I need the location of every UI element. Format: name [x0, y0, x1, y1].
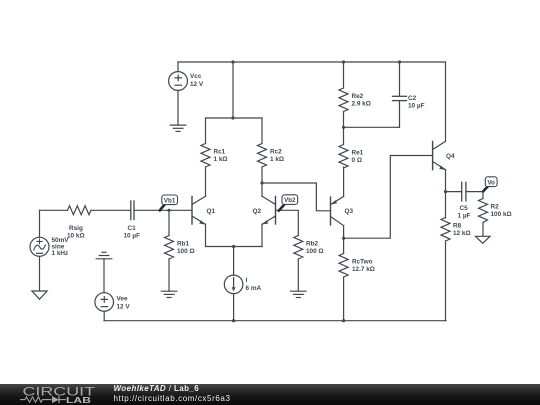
node (Rc2 bottom junction)	[260, 181, 263, 184]
label Rc1	[214, 149, 228, 164]
svg-text:Vee: Vee	[117, 296, 128, 303]
capacitor C2	[344, 62, 407, 127]
node (top rail junction to Rc bus)	[231, 60, 234, 63]
svg-text:R2: R2	[491, 204, 500, 211]
svg-text:Vcc: Vcc	[190, 73, 202, 80]
svg-text:Rc1: Rc1	[214, 149, 226, 156]
node (Rc bus junction)	[231, 116, 234, 119]
svg-text:RcTwo: RcTwo	[352, 259, 373, 266]
label R8	[453, 223, 471, 238]
svg-text:100 Ω: 100 Ω	[177, 248, 195, 255]
voltage source Vcc	[169, 62, 188, 125]
ground (under Rb2)	[291, 291, 307, 297]
svg-text:1 µF: 1 µF	[458, 213, 471, 220]
svg-text:Q2: Q2	[253, 208, 262, 215]
svg-text:Rb1: Rb1	[177, 241, 190, 248]
wire Q2 base to Rb2	[276, 210, 299, 235]
svg-text:1 kΩ: 1 kΩ	[214, 156, 228, 163]
svg-text:Q3: Q3	[345, 208, 354, 215]
resistor Rb1	[165, 210, 174, 291]
transistor Q2	[262, 183, 276, 247]
svg-text:Q1: Q1	[207, 208, 216, 215]
label I 6 mA	[246, 277, 262, 292]
wire source to Rsig	[40, 209, 68, 211]
source V1 50mV sine	[30, 210, 49, 290]
voltage source Vee	[95, 293, 114, 321]
ground (earth under source)	[32, 291, 47, 299]
node label Vb2	[279, 195, 298, 211]
label Vcc value	[190, 73, 204, 88]
node (emitter rail junction)	[232, 245, 235, 248]
svg-text:WoehlkeTAD / Lab_6: WoehlkeTAD / Lab_6	[114, 384, 200, 393]
svg-text:100 Ω: 100 Ω	[306, 248, 324, 255]
transistor Q4	[433, 62, 446, 218]
svg-text:LAB: LAB	[66, 395, 91, 405]
wire Rc2 node to Q3 base	[262, 183, 331, 211]
svg-text:10 µF: 10 µF	[124, 233, 141, 240]
node label Vo	[483, 177, 497, 192]
label R2	[491, 204, 512, 219]
svg-text:Re1: Re1	[352, 150, 364, 157]
svg-text:Vb2: Vb2	[284, 197, 296, 204]
footer text	[114, 384, 231, 403]
label Rb2	[306, 241, 324, 256]
resistor R2	[479, 192, 488, 237]
label C1	[124, 225, 141, 240]
svg-text:1 kΩ: 1 kΩ	[270, 156, 284, 163]
svg-text:1 kHz: 1 kHz	[52, 250, 69, 257]
svg-text:Re2: Re2	[352, 93, 364, 100]
label Vee value	[117, 296, 131, 311]
wire Q3 collector to Q4 base	[344, 156, 433, 239]
transistor Q3 (PNP)	[331, 167, 344, 238]
ground (earth under R2)	[476, 236, 491, 243]
svg-text:Rc2: Rc2	[270, 149, 282, 156]
capacitor C5	[446, 182, 484, 201]
node (Q4 emitter/C5 junction)	[444, 190, 447, 193]
wire bottom rail	[104, 320, 446, 322]
wire common emitter rail	[206, 246, 263, 248]
resistor Rc2	[258, 118, 267, 183]
logo CircuitLab	[20, 387, 95, 405]
node label Vb1	[160, 195, 178, 210]
svg-text:C5: C5	[460, 205, 469, 212]
svg-text:Vb1: Vb1	[164, 197, 176, 204]
ground (above Vee, flipped)	[96, 252, 112, 292]
label RcTwo	[352, 259, 375, 274]
wire C1 to Q1 base	[134, 209, 192, 211]
wire top rail	[178, 61, 446, 63]
svg-text:Rsig: Rsig	[69, 225, 83, 232]
svg-text:12 V: 12 V	[190, 81, 204, 88]
svg-text:http://circuitlab.com/cx5r6a3: http://circuitlab.com/cx5r6a3	[114, 394, 231, 403]
svg-text:12.7 kΩ: 12.7 kΩ	[352, 266, 375, 273]
node Vb1 junction	[167, 209, 170, 212]
svg-text:Q4: Q4	[446, 153, 455, 160]
ground (under Vcc)	[170, 125, 186, 131]
svg-text:I: I	[246, 277, 248, 284]
transistor Q1	[192, 196, 206, 246]
current source I	[224, 247, 243, 321]
svg-text:C2: C2	[408, 95, 417, 102]
node (bottom rail junction at RcTwo)	[342, 319, 345, 322]
svg-text:10 µF: 10 µF	[408, 103, 425, 110]
label Rc2	[270, 149, 284, 164]
footer bar	[0, 384, 540, 405]
label C5	[458, 205, 471, 220]
node (top rail junction Re2)	[342, 60, 345, 63]
resistor Re1	[339, 127, 348, 168]
label C2	[408, 95, 425, 110]
svg-text:2.9 kΩ: 2.9 kΩ	[352, 101, 371, 108]
resistor Re2	[339, 62, 348, 127]
node (Re2/Re1/C2 junction)	[342, 126, 345, 129]
wire Rsig to C1	[91, 209, 130, 211]
svg-text:0 Ω: 0 Ω	[352, 157, 362, 164]
label Rb1	[177, 241, 195, 256]
resistor RcTwo	[339, 238, 348, 321]
node (bottom rail junction at current source)	[232, 319, 235, 322]
label Re1	[352, 150, 364, 165]
svg-text:12 kΩ: 12 kΩ	[453, 230, 471, 237]
label source value	[52, 237, 70, 257]
label Rsig	[67, 225, 85, 240]
wire Rc bus	[206, 117, 263, 119]
svg-text:10 kΩ: 10 kΩ	[67, 233, 85, 240]
svg-text:6 mA: 6 mA	[246, 285, 262, 292]
svg-text:R8: R8	[453, 223, 462, 230]
node (top rail junction C2)	[398, 60, 401, 63]
svg-text:Rb2: Rb2	[306, 241, 319, 248]
ground (under Rb1)	[161, 291, 177, 297]
node (Q3 collector junction)	[342, 237, 345, 240]
svg-text:12 V: 12 V	[117, 304, 131, 311]
capacitor C1	[131, 201, 134, 220]
wire from top rail down to Rc bus	[232, 62, 234, 118]
resistor Rsig	[68, 206, 92, 215]
svg-text:Vo: Vo	[487, 179, 495, 186]
resistor Rb2	[294, 236, 303, 292]
svg-text:C1: C1	[128, 225, 137, 232]
resistor Rc1	[201, 118, 210, 196]
svg-text:100 kΩ: 100 kΩ	[491, 211, 512, 218]
label Re2	[352, 93, 371, 108]
resistor R8	[441, 218, 450, 321]
